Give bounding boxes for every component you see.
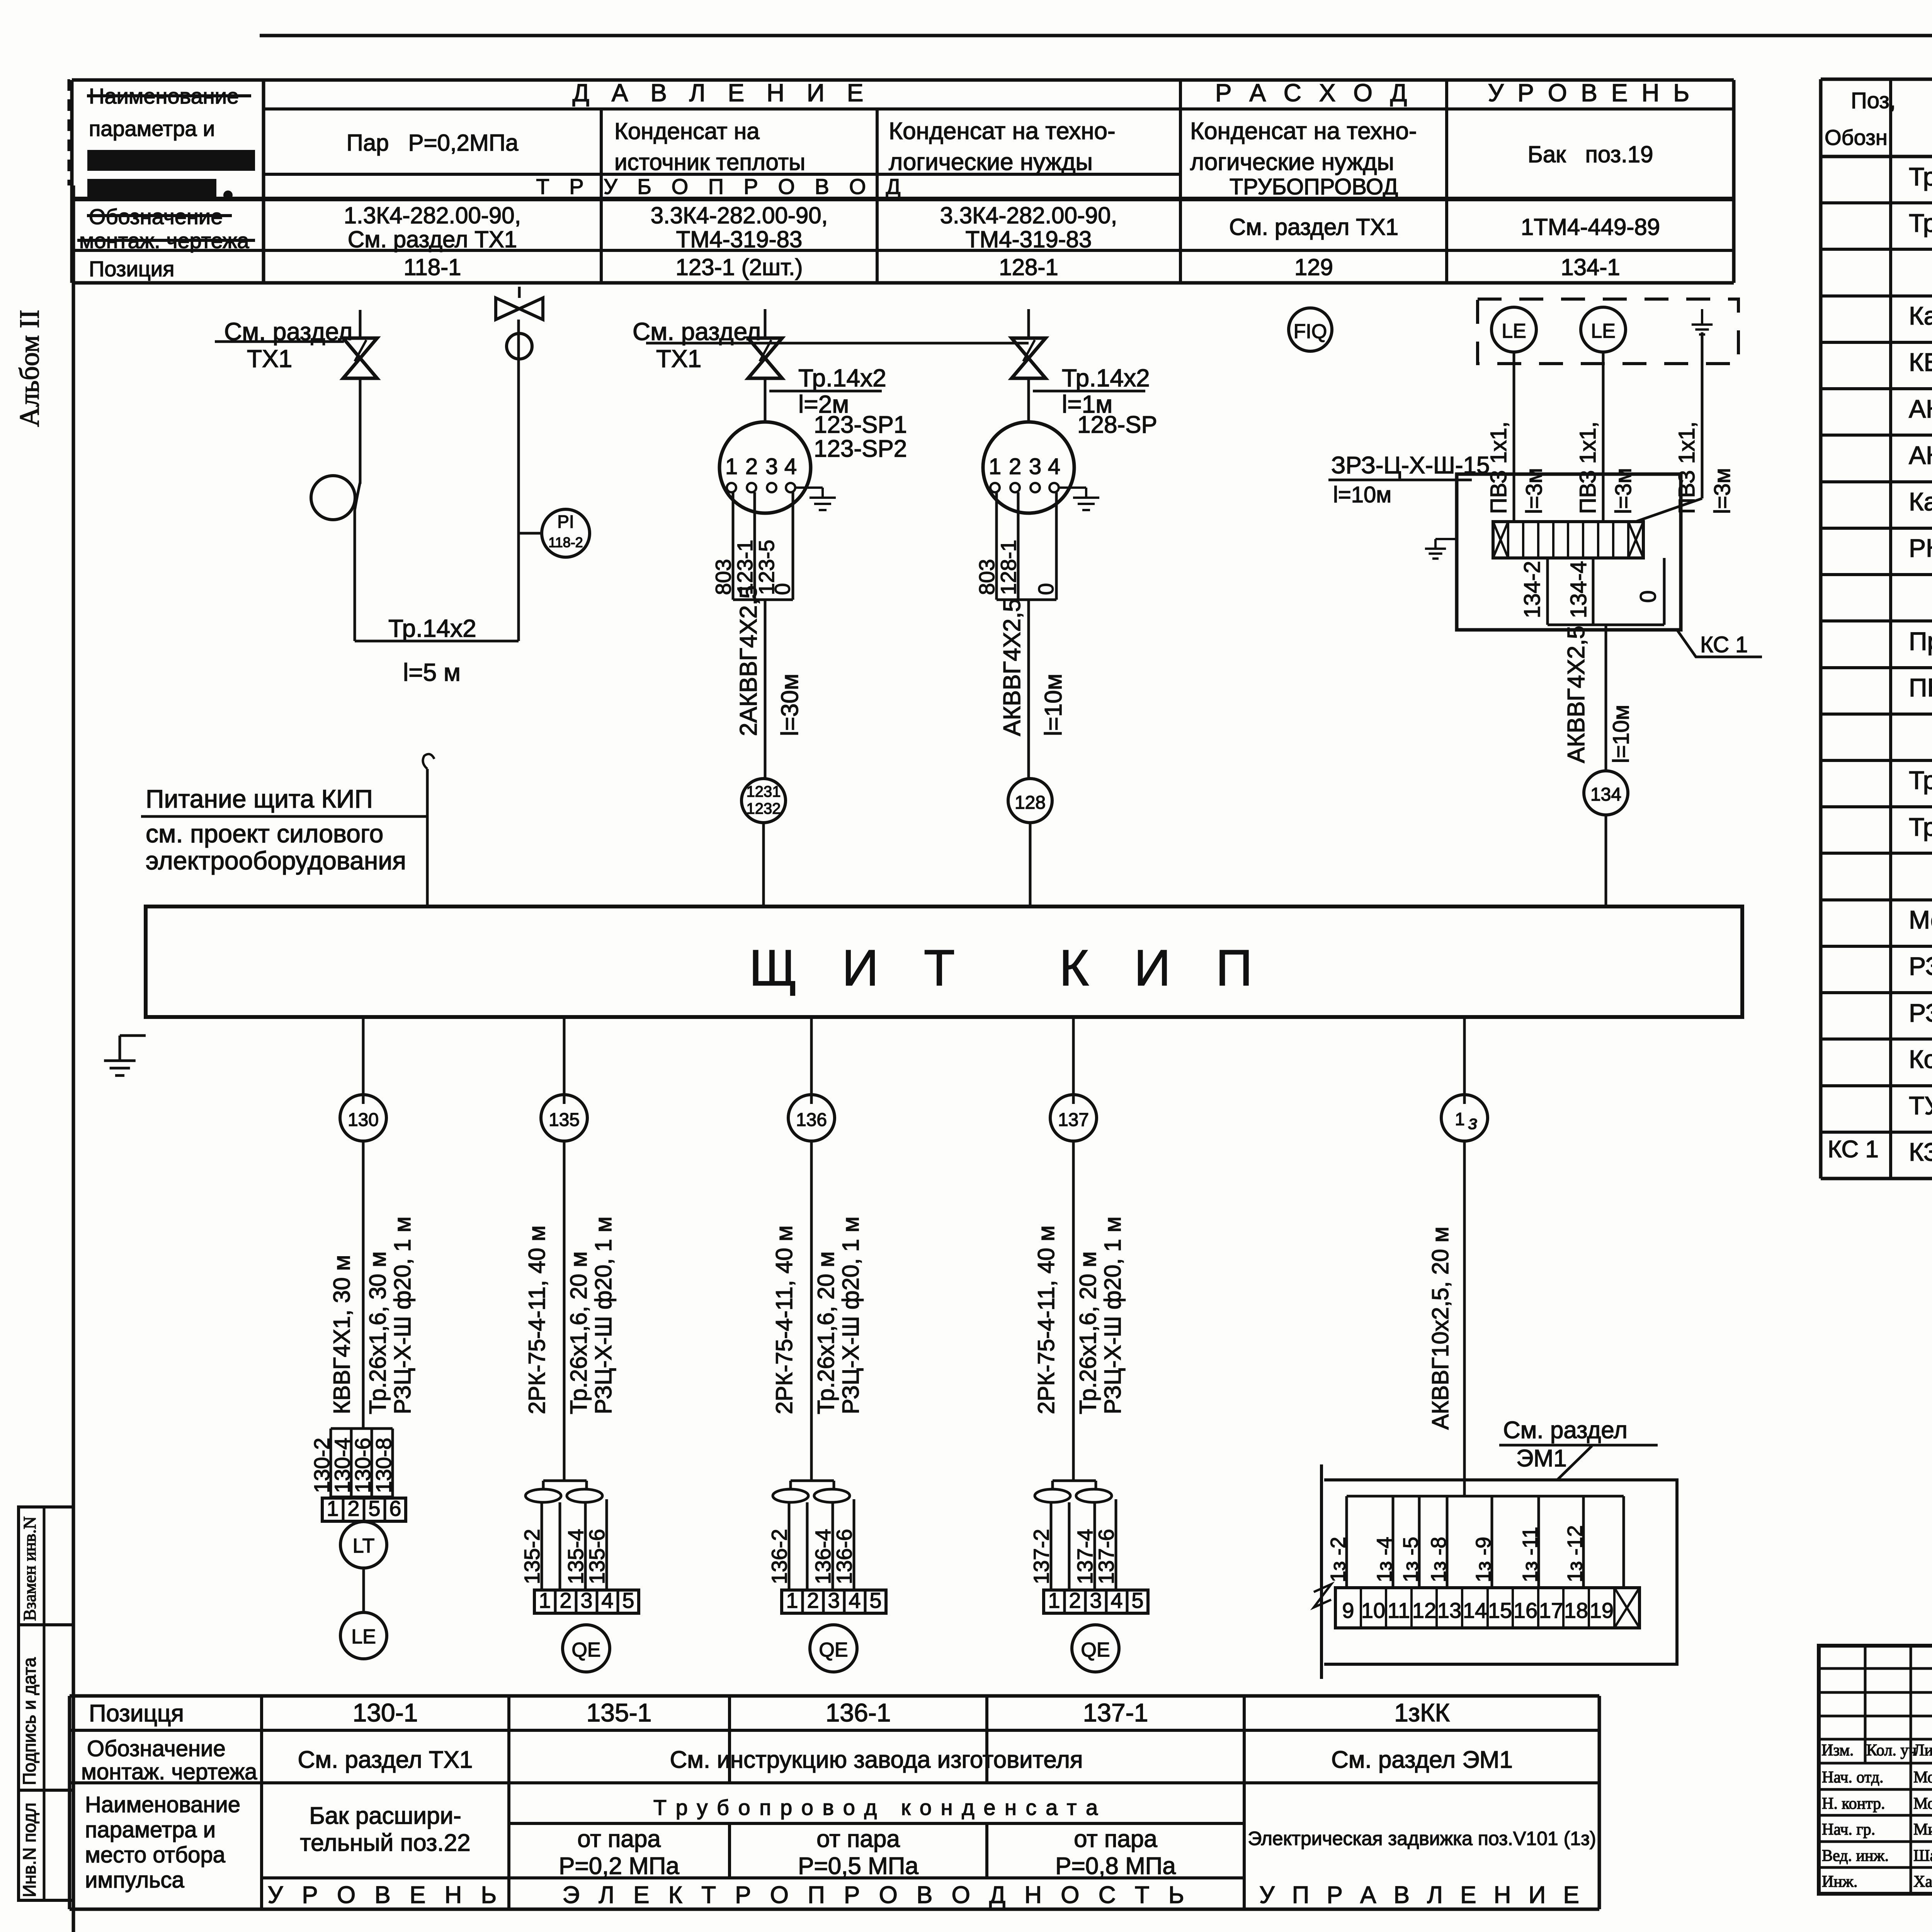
svg-text:2: 2 bbox=[745, 454, 758, 479]
svg-text:1: 1 bbox=[725, 454, 738, 479]
stem above valve 123-1 bbox=[764, 309, 767, 338]
leader line bbox=[1557, 1446, 1592, 1480]
svg-text:ПВЗ 1х1: ПВЗ 1х1 bbox=[1909, 673, 1932, 702]
svg-text:АКВВГ4Х2,5: АКВВГ4Х2,5 bbox=[1563, 626, 1590, 763]
svg-text:тельный поз.22: тельный поз.22 bbox=[300, 1830, 470, 1856]
svg-text:4: 4 bbox=[849, 1588, 861, 1612]
svg-text:2: 2 bbox=[560, 1588, 571, 1612]
branch 135 drop bbox=[563, 1017, 566, 1104]
svg-text:Молчанов: Молчанов bbox=[1913, 1795, 1932, 1813]
svg-text:1зКК: 1зКК bbox=[1394, 1698, 1450, 1727]
svg-text:Тр.26х1,6, 20 м: Тр.26х1,6, 20 м bbox=[1075, 1252, 1101, 1414]
svg-text:134: 134 bbox=[1590, 784, 1621, 805]
svg-text:Тр.26х1,6, 30 м: Тр.26х1,6, 30 м bbox=[365, 1252, 391, 1414]
svg-text:LE: LE bbox=[1502, 320, 1526, 342]
svg-text:2РК-75-4-11, 40 м: 2РК-75-4-11, 40 м bbox=[1033, 1225, 1059, 1414]
svg-text:11: 11 bbox=[1388, 1598, 1410, 1622]
parts row 13: empty bbox=[1821, 759, 1932, 762]
svg-text:134-4: 134-4 bbox=[1566, 561, 1591, 618]
parts row 16: empty bbox=[1821, 898, 1932, 901]
instrument circle 1231/1232 bbox=[742, 779, 786, 823]
svg-text:ТРУБОПРОВОД: ТРУБОПРОВОД bbox=[1230, 174, 1398, 199]
pin 3 bbox=[767, 483, 776, 492]
svg-text:ПВЗ 1х1,: ПВЗ 1х1, bbox=[1674, 422, 1699, 514]
valve V2 stem bbox=[518, 287, 521, 298]
svg-text:128-1: 128-1 bbox=[999, 254, 1058, 280]
parts row 2: Тр.14х2 bbox=[1821, 248, 1932, 251]
conductor drops bbox=[541, 1502, 543, 1590]
parts row 1: Труба ГОСТ 8734-75 bbox=[1821, 201, 1932, 204]
svg-text:1з -4: 1з -4 bbox=[1373, 1537, 1396, 1582]
svg-text:1з -9: 1з -9 bbox=[1472, 1537, 1495, 1582]
signature rows bbox=[1819, 1788, 1932, 1791]
svg-text:137-6: 137-6 bbox=[1094, 1529, 1118, 1584]
circle 136 bbox=[788, 1095, 835, 1141]
svg-text:Электрическая задвижка поз.V10: Электрическая задвижка поз.V101 (1з) bbox=[1248, 1828, 1596, 1849]
svg-text:импульса: импульса bbox=[85, 1867, 184, 1893]
parts row 12: ПВЗ 1х1 bbox=[1821, 713, 1932, 716]
wire 134 to panel bbox=[1605, 815, 1607, 906]
conductor drops bbox=[788, 1502, 791, 1590]
panel ground bbox=[120, 1034, 146, 1037]
svg-text:ПВЗ 1х1,: ПВЗ 1х1, bbox=[1575, 422, 1600, 514]
reference line to 128 valve bbox=[646, 342, 1029, 345]
svg-text:3.3К4-282.00-90,: 3.3К4-282.00-90, bbox=[651, 202, 828, 228]
svg-text:118-1: 118-1 bbox=[403, 254, 461, 280]
svg-text:Т Р У Б О П Р О В О Д: Т Р У Б О П Р О В О Д bbox=[536, 174, 907, 199]
svg-text:4: 4 bbox=[601, 1588, 613, 1612]
svg-text:135: 135 bbox=[549, 1110, 580, 1130]
svg-text:130: 130 bbox=[348, 1110, 379, 1130]
svg-text:монтаж. чертежа: монтаж. чертежа bbox=[81, 1759, 257, 1784]
cable to panel bbox=[764, 600, 767, 779]
circle 137 bbox=[1050, 1095, 1097, 1141]
svg-text:123-SP1: 123-SP1 bbox=[814, 412, 907, 438]
svg-text:1: 1 bbox=[327, 1496, 338, 1520]
svg-text:См. раздел ТХ1: См. раздел ТХ1 bbox=[298, 1747, 473, 1773]
valve V2 actuator circle bbox=[507, 333, 532, 359]
branch 137 drop bbox=[1072, 1017, 1075, 1104]
svg-text:1231: 1231 bbox=[747, 783, 781, 800]
parts row 20: Коробка соединительная bbox=[1821, 1084, 1932, 1087]
svg-text:803: 803 bbox=[975, 559, 999, 595]
parts row 19: РЗ-Ц-Х-Ш-15-У bbox=[1821, 1037, 1932, 1041]
parts row 8: Кабель ГОСТ 11326.8-79 bbox=[1821, 527, 1932, 530]
svg-text:0: 0 bbox=[770, 583, 794, 595]
svg-text:Кол. уч: Кол. уч bbox=[1866, 1742, 1917, 1759]
parts row 11: Провод ГОСТ 6323-79 Е bbox=[1821, 666, 1932, 669]
sheet border left bbox=[72, 185, 75, 1932]
svg-text:РЗЦ-Х-Ш ф20, 1 м: РЗЦ-Х-Ш ф20, 1 м bbox=[1100, 1216, 1126, 1414]
svg-text:АКВВГ4Х2,5: АКВВГ4Х2,5 bbox=[999, 599, 1026, 736]
svg-text:Инж.: Инж. bbox=[1822, 1873, 1857, 1891]
svg-text:РЗ-Ц-Х-Ш-15-У: РЗ-Ц-Х-Ш-15-У bbox=[1909, 998, 1932, 1027]
svg-text:логические нужды: логические нужды bbox=[1190, 149, 1394, 175]
svg-text:РЗ-Ц-Х-Ш-20-У: РЗ-Ц-Х-Ш-20-У bbox=[1909, 952, 1932, 980]
strikethrough 3 bbox=[77, 239, 255, 242]
svg-text:136-6: 136-6 bbox=[832, 1529, 856, 1584]
LE circle 2 bbox=[1581, 307, 1626, 352]
X marks in end cells bbox=[1493, 522, 1508, 558]
terminal strip bbox=[322, 1498, 406, 1521]
svg-text:18: 18 bbox=[1564, 1598, 1588, 1622]
svg-text:электрооборудования: электрооборудования bbox=[146, 846, 406, 875]
top table row line under medium cells bbox=[264, 173, 1180, 176]
svg-text:3: 3 bbox=[765, 454, 778, 479]
panel box SHIT KIP bbox=[146, 906, 1742, 1017]
svg-text:КС 1: КС 1 bbox=[1828, 1136, 1879, 1163]
svg-text:См. инструкцию завода изготови: См. инструкцию завода изготовителя bbox=[670, 1747, 1083, 1773]
svg-text:0: 0 bbox=[1034, 583, 1058, 595]
strikethrough 1 bbox=[87, 94, 251, 97]
dashed instrument box bbox=[1478, 299, 1738, 364]
LT circle bbox=[340, 1522, 387, 1568]
svg-text:2: 2 bbox=[347, 1496, 359, 1520]
svg-text:Шалавеюс: Шалавеюс bbox=[1913, 1847, 1932, 1865]
svg-text:2: 2 bbox=[1069, 1588, 1081, 1612]
svg-text:3: 3 bbox=[828, 1588, 840, 1612]
svg-text:Лист: Лист bbox=[1913, 1742, 1932, 1759]
wire valve to sensor bbox=[1027, 378, 1030, 422]
svg-text:ТХ1: ТХ1 bbox=[247, 345, 292, 372]
wire: right riser to PI bbox=[517, 320, 520, 641]
ground from pin4 bbox=[795, 486, 823, 489]
EM1 left bus line with break bbox=[1320, 1464, 1323, 1679]
EM1 X cell bbox=[1614, 1588, 1639, 1628]
margin box Vzamen inv.N bbox=[19, 1507, 73, 1625]
svg-text:3: 3 bbox=[580, 1588, 592, 1612]
svg-text:l=30м: l=30м bbox=[777, 673, 803, 736]
svg-text:Нач. отд.: Нач. отд. bbox=[1822, 1769, 1884, 1786]
svg-text:КВВГ4х1: КВВГ4х1 bbox=[1909, 348, 1932, 376]
svg-text:АКВВГ10х2,5: АКВВГ10х2,5 bbox=[1909, 441, 1932, 469]
svg-text:Труба ГОСТ 8734-75: Труба ГОСТ 8734-75 bbox=[1909, 162, 1932, 191]
sensor circle 123-1 bbox=[719, 422, 811, 513]
top table column lines bbox=[262, 80, 265, 283]
svg-text:128-SP: 128-SP bbox=[1077, 412, 1157, 438]
coax header box bbox=[791, 1480, 834, 1482]
svg-text:1: 1 bbox=[786, 1588, 798, 1612]
svg-text:130-8: 130-8 bbox=[371, 1438, 396, 1493]
svg-text:Д А В Л Е Н И Е: Д А В Л Е Н И Е bbox=[573, 79, 871, 107]
pin 1 bbox=[990, 483, 1000, 492]
parts row 21: ТУ36.1829.01-21-88 bbox=[1821, 1131, 1932, 1134]
break mark bbox=[1314, 1584, 1331, 1607]
svg-text:Тр.14х2: Тр.14х2 bbox=[388, 614, 476, 642]
svg-text:136: 136 bbox=[796, 1110, 827, 1130]
svg-text:Питание щита КИП: Питание щита КИП bbox=[146, 784, 373, 813]
svg-text:118-2: 118-2 bbox=[548, 534, 583, 550]
svg-text:См. раздел: См. раздел bbox=[1503, 1417, 1628, 1444]
svg-text:123-SP2: 123-SP2 bbox=[814, 435, 907, 462]
svg-text:135-1: 135-1 bbox=[587, 1698, 652, 1727]
svg-text:РЗЦ-Х-Ш ф20, 1 м: РЗЦ-Х-Ш ф20, 1 м bbox=[838, 1216, 864, 1414]
cable out of KC1 down bbox=[1605, 625, 1607, 771]
KC1 junction box bbox=[1457, 474, 1681, 630]
bottom table cols bbox=[260, 1696, 263, 1909]
strikethrough 2 bbox=[87, 214, 232, 217]
stem above valve 128-1 bbox=[1027, 309, 1030, 338]
svg-text:l=10м: l=10м bbox=[1040, 673, 1067, 736]
svg-text:з: з bbox=[1468, 1112, 1477, 1133]
svg-text:Р=0,5 МПа: Р=0,5 МПа bbox=[798, 1853, 918, 1879]
ground at KC1 left bbox=[1435, 538, 1457, 540]
svg-text:QE: QE bbox=[1081, 1639, 1110, 1661]
svg-text:Р=0,8 МПа: Р=0,8 МПа bbox=[1055, 1853, 1176, 1879]
svg-text:Тр.14х2: Тр.14х2 bbox=[1062, 364, 1150, 392]
svg-text:АКВВГ10х2,5, 20 м: АКВВГ10х2,5, 20 м bbox=[1427, 1226, 1453, 1430]
svg-text:9: 9 bbox=[1342, 1598, 1354, 1622]
ground in dashed box bbox=[1701, 309, 1703, 325]
top table row line above poz bbox=[72, 249, 1734, 252]
parts row 10: empty bbox=[1821, 619, 1932, 622]
circle 1z bbox=[1441, 1095, 1488, 1141]
svg-text:Кабель ГОСТ 11326.8-79: Кабель ГОСТ 11326.8-79 bbox=[1909, 487, 1932, 516]
tag rects under strip bbox=[1546, 558, 1549, 625]
svg-text:135-6: 135-6 bbox=[585, 1529, 609, 1584]
svg-text:Бак расшири-: Бак расшири- bbox=[309, 1803, 461, 1829]
svg-text:1.3К4-282.00-90,: 1.3К4-282.00-90, bbox=[344, 202, 521, 228]
wire 123 circle to panel bbox=[762, 823, 765, 906]
EM1 tag boxes bbox=[1347, 1495, 1624, 1498]
coax connector ellipses bbox=[773, 1489, 808, 1502]
top table outer bbox=[72, 78, 1734, 82]
cable into EM1 bbox=[1463, 1480, 1466, 1496]
wire 128 circle to panel bbox=[1029, 823, 1032, 906]
svg-text:l=10м: l=10м bbox=[1333, 482, 1391, 507]
pin 4 bbox=[1049, 483, 1059, 492]
sheet border top bbox=[260, 34, 1932, 37]
parts row 14: Труба ГОСТ 10704-91 bbox=[1821, 805, 1932, 808]
svg-text:Поз,: Поз, bbox=[1851, 88, 1896, 113]
terminal strip bbox=[1044, 1590, 1148, 1613]
parts table header row bbox=[1821, 155, 1932, 158]
power feed line with arrow bbox=[426, 769, 429, 906]
svg-text:ТУ36.1829.01-21-88: ТУ36.1829.01-21-88 bbox=[1909, 1091, 1932, 1120]
svg-text:КС 1: КС 1 bbox=[1700, 632, 1748, 657]
title block small grid bbox=[1819, 1667, 1932, 1670]
svg-text:4: 4 bbox=[1048, 454, 1060, 479]
svg-text:Т р у б о п р о в о д к о н: Т р у б о п р о в о д к о н д е н с а т … bbox=[653, 1795, 1099, 1820]
svg-text:Провод ГОСТ 6323-79 Е: Провод ГОСТ 6323-79 Е bbox=[1909, 627, 1932, 655]
svg-text:Молчанов: Молчанов bbox=[1913, 1769, 1932, 1786]
svg-text:см. проект силового: см. проект силового bbox=[146, 819, 383, 848]
sensor circle 128-1 bbox=[983, 422, 1074, 513]
sensor tag box bbox=[732, 492, 735, 600]
svg-text:1з -8: 1з -8 bbox=[1427, 1537, 1450, 1582]
svg-text:параметра и: параметра и bbox=[85, 1817, 216, 1842]
svg-text:Изм.: Изм. bbox=[1821, 1742, 1854, 1759]
KC1 terminal strip bbox=[1493, 522, 1643, 558]
wire to PI bbox=[519, 532, 542, 535]
svg-text:Р=0,2 МПа: Р=0,2 МПа bbox=[559, 1853, 679, 1879]
bottom table frame bbox=[70, 1694, 1599, 1698]
blacked out words bbox=[88, 151, 254, 170]
svg-text:137-2: 137-2 bbox=[1029, 1529, 1053, 1584]
svg-text:3: 3 bbox=[1029, 454, 1041, 479]
svg-text:1232: 1232 bbox=[747, 800, 781, 817]
svg-text:LE: LE bbox=[351, 1626, 376, 1648]
wire valve to sensor bbox=[764, 378, 767, 422]
svg-text:13: 13 bbox=[1437, 1598, 1461, 1622]
LE circle bottom bbox=[340, 1612, 387, 1659]
parts row 15: Тр.26х1,6 bbox=[1821, 852, 1932, 855]
svg-text:РЗЦ-Х-Ш ф20, 1 м: РЗЦ-Х-Ш ф20, 1 м bbox=[590, 1216, 616, 1414]
title block outer bbox=[1819, 1646, 1932, 1894]
svg-text:134-1: 134-1 bbox=[1561, 254, 1620, 280]
svg-text:2РК-75-4-11, 40 м: 2РК-75-4-11, 40 м bbox=[771, 1225, 797, 1414]
svg-text:Тр.26х1,6, 20 м: Тр.26х1,6, 20 м bbox=[813, 1252, 839, 1414]
svg-text:Харитонова: Харитонова bbox=[1913, 1873, 1932, 1891]
coax header box bbox=[543, 1480, 587, 1482]
svg-text:от пара: от пара bbox=[577, 1826, 661, 1852]
svg-text:РЗЦ-Х-Ш ф20, 1 м: РЗЦ-Х-Ш ф20, 1 м bbox=[389, 1216, 415, 1414]
instrument circle 128 bbox=[1008, 779, 1052, 823]
svg-text:FIQ: FIQ bbox=[1294, 320, 1327, 343]
svg-text:Тр.26х1,6, 20 м: Тр.26х1,6, 20 м bbox=[566, 1252, 592, 1414]
pin 2 bbox=[1010, 483, 1020, 492]
svg-text:130-1: 130-1 bbox=[353, 1698, 418, 1727]
svg-text:129: 129 bbox=[1294, 254, 1333, 280]
pin 2 bbox=[747, 483, 756, 492]
PI gauge circle 118-2 bbox=[542, 509, 590, 557]
svg-text:1ТМ4-449-89: 1ТМ4-449-89 bbox=[1521, 214, 1660, 240]
QE circle 136 bbox=[810, 1625, 857, 1672]
svg-text:Инв.N подл: Инв.N подл bbox=[19, 1803, 39, 1897]
svg-text:LE: LE bbox=[1591, 320, 1616, 342]
svg-text:Взамен инв.N: Взамен инв.N bbox=[20, 1516, 39, 1621]
svg-text:QE: QE bbox=[819, 1639, 848, 1661]
svg-text:См. раздел ТХ1: См. раздел ТХ1 bbox=[1229, 214, 1398, 240]
svg-text:источник теплоты: источник теплоты bbox=[614, 149, 805, 175]
seal pot loop (syphon) bbox=[311, 476, 355, 520]
parts row 4: Кабель ГОСТ 1508-78 Е bbox=[1821, 341, 1932, 344]
svg-text:l=3м: l=3м bbox=[1710, 468, 1735, 514]
svg-text:12: 12 bbox=[1412, 1598, 1436, 1622]
svg-text:ЭМ1: ЭМ1 bbox=[1516, 1445, 1567, 1472]
pipe bottom run Tr.14x2 bbox=[355, 640, 519, 643]
branch 130 drop bbox=[362, 1017, 365, 1104]
coax connector ellipses bbox=[526, 1489, 561, 1502]
svg-text:136-4: 136-4 bbox=[811, 1529, 835, 1584]
margin box Podpis i data bbox=[19, 1625, 73, 1790]
svg-text:10: 10 bbox=[1361, 1598, 1385, 1622]
svg-text:2: 2 bbox=[807, 1588, 819, 1612]
svg-text:4: 4 bbox=[1111, 1588, 1122, 1612]
svg-text:135-2: 135-2 bbox=[520, 1529, 544, 1584]
svg-text:КВВГ4Х1, 30 м: КВВГ4Х1, 30 м bbox=[329, 1255, 355, 1414]
terminal tag columns bbox=[330, 1429, 332, 1497]
parts row 22: КЗНС 8У2 bbox=[1821, 1177, 1932, 1180]
svg-text:место отбора: место отбора bbox=[85, 1842, 226, 1867]
svg-text:Нач. гр.: Нач. гр. bbox=[1822, 1821, 1875, 1838]
EM1 outer box bbox=[1324, 1480, 1677, 1664]
EM1 terminal strip bbox=[1335, 1588, 1639, 1628]
svg-text:128: 128 bbox=[1015, 793, 1046, 813]
svg-text:2: 2 bbox=[1009, 454, 1021, 479]
valve V2 (top, horizontal bowtie) bbox=[496, 298, 543, 320]
svg-text:Тр.14х2: Тр.14х2 bbox=[798, 364, 886, 392]
svg-text:1з -2: 1з -2 bbox=[1327, 1537, 1350, 1582]
pin 3 bbox=[1031, 483, 1040, 492]
svg-text:Тр.26х1,6: Тр.26х1,6 bbox=[1909, 813, 1932, 841]
svg-text:Митрофанова: Митрофанова bbox=[1913, 1821, 1932, 1838]
svg-text:Наименование: Наименование bbox=[85, 1792, 240, 1817]
svg-text:ТХ1: ТХ1 bbox=[656, 345, 701, 372]
wire: valve V1 down to seal pot bbox=[359, 378, 362, 484]
svg-text:У Р О В Е Н Ь: У Р О В Е Н Ь bbox=[1488, 79, 1693, 107]
svg-text:14: 14 bbox=[1463, 1598, 1487, 1622]
LE circle 1 bbox=[1492, 307, 1536, 352]
svg-text:Подпись и дата: Подпись и дата bbox=[19, 1657, 39, 1785]
branch 136 drop bbox=[810, 1017, 813, 1104]
svg-text:123-1 (2шт.): 123-1 (2шт.) bbox=[675, 254, 803, 280]
svg-text:Э Л Е К Т Р О П Р О В О Д Н О: Э Л Е К Т Р О П Р О В О Д Н О С Т Ь bbox=[562, 1882, 1190, 1908]
parts row 9: РК75-4-11 bbox=[1821, 573, 1932, 576]
svg-text:136-2: 136-2 bbox=[767, 1529, 791, 1584]
coax header box bbox=[1053, 1480, 1096, 1482]
svg-text:Щ И Т К И П: Щ И Т К И П bbox=[749, 939, 1268, 996]
instrument circle 134 bbox=[1584, 771, 1628, 815]
svg-text:16: 16 bbox=[1514, 1598, 1537, 1622]
wire: seal pot down to bottom run bbox=[355, 482, 360, 510]
svg-text:Тр.14х2: Тр.14х2 bbox=[1909, 209, 1932, 237]
svg-text:АКВВГ4х2,5: АКВВГ4х2,5 bbox=[1909, 395, 1932, 423]
stem above valve V1 bbox=[359, 310, 362, 338]
svg-text:15: 15 bbox=[1488, 1598, 1512, 1622]
svg-text:Альбом II: Альбом II bbox=[14, 310, 45, 427]
pin 1 bbox=[727, 483, 736, 492]
svg-text:Обозначение: Обозначение bbox=[87, 1736, 226, 1761]
svg-text:1з -12: 1з -12 bbox=[1563, 1525, 1587, 1582]
svg-text:Позиция: Позиция bbox=[89, 257, 174, 281]
valve V1 tick bbox=[355, 340, 366, 361]
svg-text:Р А С Х О Д: Р А С Х О Д bbox=[1215, 79, 1412, 107]
svg-text:Конденсат на техно-: Конденсат на техно- bbox=[1190, 118, 1417, 145]
svg-text:QE: QE bbox=[571, 1639, 600, 1661]
QE circle 135 bbox=[563, 1625, 610, 1672]
svg-text:КЗНС 8У2: КЗНС 8У2 bbox=[1909, 1138, 1932, 1166]
svg-text:19: 19 bbox=[1590, 1598, 1614, 1622]
svg-text:l=5 м: l=5 м bbox=[403, 658, 461, 686]
conductor drops bbox=[1050, 1502, 1053, 1590]
svg-text:137-4: 137-4 bbox=[1073, 1529, 1097, 1584]
svg-text:У Р О В Е Н Ь: У Р О В Е Н Ь bbox=[268, 1882, 503, 1908]
svg-text:Кабель ГОСТ 1508-78 Е: Кабель ГОСТ 1508-78 Е bbox=[1909, 301, 1932, 330]
svg-text:Коробка соединительная: Коробка соединительная bbox=[1909, 1045, 1932, 1073]
terminal strip bbox=[782, 1590, 886, 1613]
sensor tag box bbox=[995, 492, 998, 600]
svg-text:2АКВВГ4Х2,5: 2АКВВГ4Х2,5 bbox=[735, 585, 762, 736]
svg-text:134-2: 134-2 bbox=[1520, 561, 1545, 618]
parts row 6: АКВВГ4х2,5 bbox=[1821, 434, 1932, 437]
svg-text:LT: LT bbox=[353, 1535, 375, 1557]
terminal strip bbox=[534, 1590, 639, 1613]
svg-text:5: 5 bbox=[1131, 1588, 1143, 1612]
wires from LE to KC1 bbox=[1513, 352, 1515, 522]
branch 1z drop bbox=[1463, 1017, 1466, 1104]
parts row 18: РЗ-Ц-Х-Ш-20-У bbox=[1821, 991, 1932, 994]
svg-text:См. раздел: См. раздел bbox=[633, 318, 761, 345]
svg-text:См. раздел ТХ1: См. раздел ТХ1 bbox=[348, 226, 517, 252]
svg-text:17: 17 bbox=[1539, 1598, 1563, 1622]
svg-text:логические нужды: логические нужды bbox=[889, 149, 1093, 175]
top table thick row line bbox=[72, 197, 1734, 201]
coax connector ellipses bbox=[1035, 1489, 1070, 1502]
svg-text:Пар Р=0,2МПа: Пар Р=0,2МПа bbox=[347, 130, 519, 156]
ground from pin4 bbox=[1059, 486, 1086, 489]
svg-text:от пара: от пара bbox=[816, 1826, 900, 1852]
